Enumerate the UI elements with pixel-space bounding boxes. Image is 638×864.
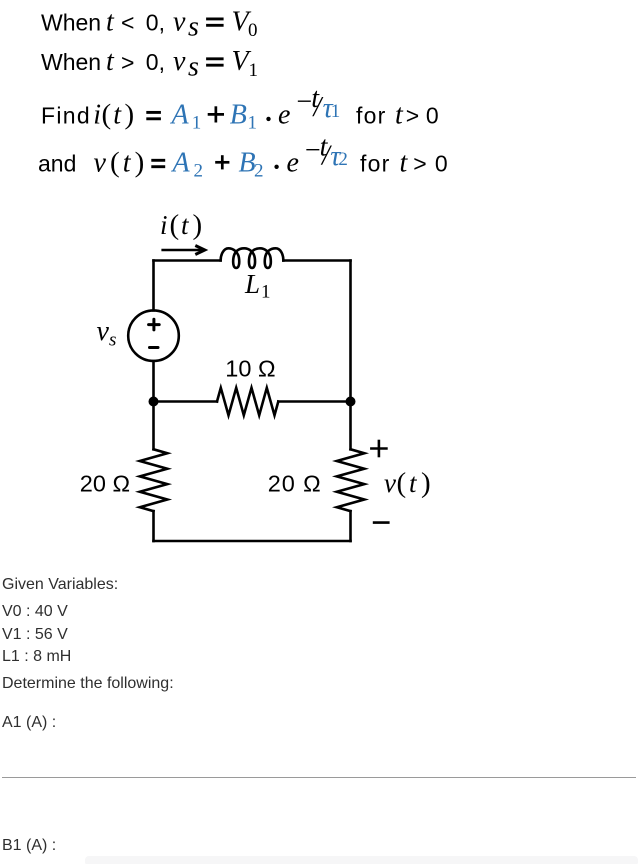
svg-text:v: v [94, 148, 107, 179]
svg-text:(: ( [397, 467, 407, 499]
svg-text:(: ( [170, 209, 180, 241]
svg-text:t: t [395, 100, 404, 131]
given variables heading [2, 577, 118, 593]
svg-text:B: B [230, 100, 247, 131]
node dot left [149, 397, 159, 407]
svg-text:for: for [360, 151, 390, 177]
svg-text:t: t [400, 148, 409, 179]
minus sign inside source [150, 346, 159, 349]
math line 3: Find i(t) = A1 + B1 e^-t/tau1 for t > 0 [41, 83, 439, 133]
svg-text:v: v [173, 46, 186, 77]
determine heading [2, 676, 174, 692]
svg-text:2: 2 [338, 149, 348, 170]
node dot right [346, 397, 356, 407]
voltage source vs circle [128, 310, 179, 361]
current arrow i(t) [163, 249, 202, 252]
svg-text:1: 1 [331, 101, 341, 122]
circuit schematic [0, 190, 638, 570]
svg-text:s: s [188, 51, 199, 82]
svg-text:t: t [106, 6, 115, 37]
variable V0 [2, 604, 68, 620]
answer label B1 [2, 838, 56, 854]
resistor 10 ohm (horizontal zigzag) [217, 388, 278, 416]
math line 2: When t > 0, vs = V1 [41, 46, 258, 82]
svg-text:>: > [413, 151, 426, 177]
svg-text:10 Ω: 10 Ω [225, 355, 275, 381]
svg-text:20 Ω: 20 Ω [80, 470, 130, 496]
svg-text:>: > [406, 103, 419, 129]
plus sign near v(t) [370, 440, 390, 523]
math line 4: and v(t) = A2 + B2 e^-t/tau2 for t > 0 [38, 131, 448, 181]
svg-text:1: 1 [249, 60, 259, 81]
wire: middle horizontal left (node to 10 ohm resistor) [154, 400, 218, 403]
wire: right rail vertical (top wire to right resistor) [349, 261, 352, 450]
svg-text:t: t [123, 148, 132, 179]
svg-text:L: L [244, 269, 260, 299]
svg-text:1: 1 [248, 112, 258, 133]
svg-text:i: i [93, 100, 101, 131]
svg-text:A: A [171, 148, 191, 179]
svg-text:20 Ω: 20 Ω [268, 470, 322, 496]
svg-text:When: When [41, 9, 101, 35]
divider line [2, 777, 636, 778]
wire: left rail bottom (resistor to bottom wire) [152, 511, 155, 541]
wire: right rail bottom (resistor to bottom wire) [349, 511, 352, 541]
svg-text:t: t [113, 100, 122, 131]
resistor 20 ohm left (vertical zigzag) [140, 449, 168, 511]
variable L1 [2, 649, 71, 665]
answer label A1 [2, 715, 56, 731]
svg-text:): ) [193, 209, 203, 241]
resistor 20 ohm right (vertical zigzag) [337, 449, 365, 511]
svg-text:2: 2 [254, 160, 264, 181]
svg-text:0,: 0, [146, 9, 165, 35]
svg-text:): ) [421, 467, 431, 499]
svg-text:vs: vs [97, 316, 117, 351]
svg-text:<: < [121, 10, 134, 36]
svg-text:When: When [41, 49, 101, 75]
svg-text:v: v [173, 6, 186, 37]
svg-text:e: e [278, 100, 290, 131]
svg-text:s: s [188, 12, 199, 43]
svg-text:for: for [356, 103, 386, 129]
svg-text:i: i [160, 210, 168, 240]
wire: left rail top (top wire down to source) [152, 261, 155, 311]
svg-text:): ) [135, 147, 145, 179]
plus sign inside source [149, 319, 160, 347]
wire: top left horizontal (source top to inductor) [154, 259, 221, 262]
math line 1: When t < 0, vs = V0 [41, 6, 258, 42]
svg-text:e: e [287, 148, 299, 179]
svg-text:and: and [38, 151, 76, 177]
svg-text:v: v [384, 468, 396, 498]
svg-text:t: t [106, 46, 115, 77]
svg-text:2: 2 [194, 160, 204, 181]
wire: top right horizontal (inductor to right rail) [283, 259, 350, 262]
arrowhead of i(t) [195, 246, 205, 255]
svg-text:0: 0 [248, 20, 258, 41]
wire: source bottom to middle node [152, 361, 155, 402]
inductor L1 [221, 248, 284, 268]
wire: left rail middle (node down to left resistor) [152, 402, 155, 450]
minus sign near v(t) [373, 521, 390, 524]
svg-text:t: t [409, 468, 418, 498]
wire: bottom horizontal [154, 540, 351, 543]
svg-text:t: t [181, 210, 190, 240]
input field B1 [85, 856, 638, 864]
svg-text:>: > [121, 50, 134, 76]
math statement block [0, 0, 638, 190]
svg-text:0,: 0, [146, 49, 165, 75]
wire: middle horizontal right (resistor to right node) [278, 400, 350, 403]
svg-text:Find: Find [41, 103, 91, 129]
svg-text:(: ( [110, 147, 120, 179]
svg-text:A: A [170, 100, 190, 131]
svg-text:(: ( [102, 99, 112, 131]
svg-text:1: 1 [192, 112, 202, 133]
variable V1 [2, 627, 68, 643]
svg-text:): ) [125, 99, 135, 131]
svg-text:0: 0 [426, 103, 439, 129]
svg-text:0: 0 [435, 151, 448, 177]
svg-text:1: 1 [261, 282, 271, 303]
